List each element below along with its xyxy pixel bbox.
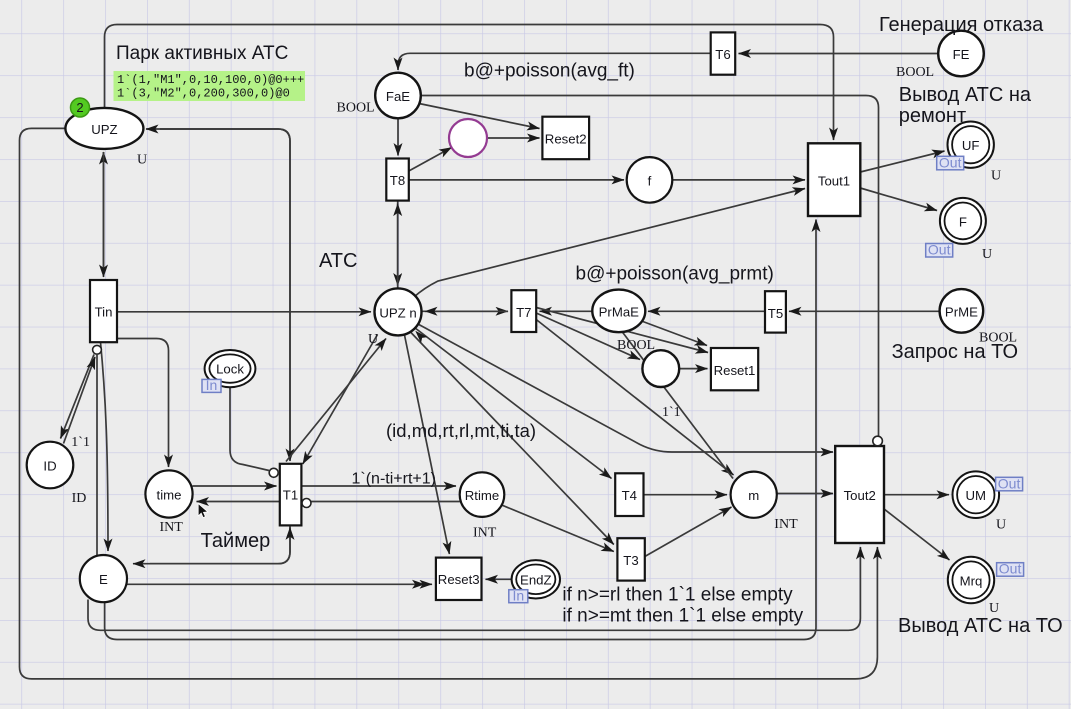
wire T1 to UPZ n (diagonal) xyxy=(286,339,386,462)
transition T7 xyxy=(511,290,536,332)
place purple circle xyxy=(449,119,487,157)
svg-text:U: U xyxy=(137,153,147,168)
svg-text:E: E xyxy=(99,572,108,587)
wire T7 to m xyxy=(536,320,733,476)
port tag Out of UF xyxy=(937,154,964,170)
wire Tin to UPZ n (horizontal) xyxy=(117,311,371,313)
svg-text:T6: T6 xyxy=(715,47,730,62)
circle terminator at T1 right xyxy=(302,499,311,508)
svg-text:T5: T5 xyxy=(768,306,783,321)
svg-text:EndZ: EndZ xyxy=(520,572,552,587)
extra arrowhead on E to Reset3 (double head) xyxy=(412,580,425,589)
svg-text:АТС: АТС xyxy=(319,250,357,272)
transition Reset1 xyxy=(711,348,758,390)
svg-text:Out: Out xyxy=(999,561,1022,577)
svg-text:Tout2: Tout2 xyxy=(844,488,876,503)
wire Tin to time xyxy=(117,339,169,468)
wire T8 to purple circle xyxy=(409,148,452,172)
port tag In of EndZ xyxy=(509,588,528,604)
svg-text:PrMaE: PrMaE xyxy=(599,304,640,319)
wire PrME to T5 xyxy=(789,310,940,312)
port tag In of Lock xyxy=(202,377,221,393)
place ID xyxy=(27,442,74,489)
wire E to T1 (same track, arrow into T1 bottom) xyxy=(150,527,290,563)
port tag Out of F xyxy=(926,242,953,258)
svg-text:T1: T1 xyxy=(283,488,298,503)
svg-text:BOOL: BOOL xyxy=(337,101,375,116)
svg-text:Reset1: Reset1 xyxy=(714,363,756,378)
wire T1 to E xyxy=(133,525,290,563)
transition Reset2 xyxy=(542,117,589,160)
wire UPZ n to T4 xyxy=(415,328,612,479)
place small circle b xyxy=(642,350,679,387)
svg-text:2: 2 xyxy=(76,100,83,115)
wire T7 to Reset1 xyxy=(536,308,708,353)
wire purple circle to Reset2 xyxy=(487,137,540,139)
wire UPZ to Tout2 (left+bottom route) xyxy=(20,128,878,679)
place FE xyxy=(938,31,984,77)
wire UPZ to T1 (same track, arrow into T1 top) xyxy=(160,129,290,461)
wire UPZ to Tin (arrow into Tin top) xyxy=(103,152,105,277)
circle terminator at T1 left xyxy=(269,468,278,477)
svg-text:1`(1,"M1",0,10,100,0)@0+++: 1`(1,"M1",0,10,100,0)@0+++ xyxy=(117,73,304,87)
svg-text:time: time xyxy=(157,488,182,503)
mouse cursor xyxy=(198,504,208,518)
wire FaE to T8 xyxy=(397,118,399,155)
svg-text:INT: INT xyxy=(160,520,184,535)
wire T1 to UPZ (vertical x290, arrow into UPZ right) xyxy=(146,129,290,455)
svg-text:UF: UF xyxy=(962,138,980,153)
svg-text:Lock: Lock xyxy=(216,362,244,377)
place Lock (fusion/port double ellipse) xyxy=(205,350,256,387)
svg-text:In: In xyxy=(512,588,524,604)
wire small circle b to Reset1 xyxy=(679,368,707,370)
place UPZ n xyxy=(375,288,422,335)
svg-text:UPZ n: UPZ n xyxy=(379,305,416,320)
svg-text:U: U xyxy=(368,332,378,347)
place UPZ xyxy=(65,108,143,149)
transition T4 xyxy=(615,473,643,516)
wire Tin to UPZ (vertical, arrow into UPZ bottom) xyxy=(103,152,105,270)
svg-text:Tout1: Tout1 xyxy=(818,174,850,189)
arrowhead into UPZ n from T3 line xyxy=(415,331,427,344)
svg-text:Tin: Tin xyxy=(95,305,113,320)
wire FaE to Reset2 (diagonal) xyxy=(419,104,540,129)
svg-text:Таймер: Таймер xyxy=(201,530,271,552)
svg-text:Вывод АТС на: Вывод АТС на xyxy=(899,84,1032,106)
svg-text:if n>=mt then 1`1 else empty: if n>=mt then 1`1 else empty xyxy=(562,606,803,627)
place UM (output port double circle) xyxy=(953,471,1000,518)
transition Tin xyxy=(90,280,117,342)
svg-text:Генерация отказа: Генерация отказа xyxy=(879,14,1044,36)
wire T3 to m xyxy=(645,507,732,557)
wire T5 to PrMaE xyxy=(648,310,765,312)
wire Tin to ID (diagonal) xyxy=(61,355,95,439)
place PrMaE xyxy=(592,290,645,333)
transition T6 xyxy=(711,32,736,74)
svg-text:Парк активных АТС: Парк активных АТС xyxy=(116,43,288,64)
svg-text:U: U xyxy=(989,601,999,616)
wire Rtime to T3 xyxy=(501,505,614,552)
svg-text:INT: INT xyxy=(774,517,798,532)
svg-text:INT: INT xyxy=(473,526,497,541)
svg-text:Rtime: Rtime xyxy=(465,488,499,503)
svg-text:f: f xyxy=(648,173,652,188)
wire T6 to FaE xyxy=(398,53,711,70)
circle terminator at Tin bottom xyxy=(93,345,102,354)
svg-text:Reset3: Reset3 xyxy=(438,572,480,587)
wire T7 to UPZ n xyxy=(425,310,508,312)
svg-text:b@+poisson(avg_ft): b@+poisson(avg_ft) xyxy=(464,61,635,82)
wire ID to Tin (diagonal) xyxy=(64,357,96,444)
wire T7 to small circle b xyxy=(536,313,640,360)
svg-text:FaE: FaE xyxy=(386,89,410,104)
wire T1 to Rtime (upper horizontal, labelled) xyxy=(301,485,456,487)
wire UPZ top to Tout1 top (long top arc) xyxy=(105,25,834,141)
wire UPZ n to Tout2 (bend + horizontal) xyxy=(417,324,833,453)
transition T1 xyxy=(280,464,302,526)
svg-text:T8: T8 xyxy=(390,173,405,188)
wire f to Tout1 xyxy=(672,179,805,181)
svg-text:BOOL: BOOL xyxy=(896,65,934,80)
wire Tin to E xyxy=(101,342,109,551)
svg-text:T3: T3 xyxy=(623,553,638,568)
wire Tout2 to Mrq xyxy=(883,508,950,560)
svg-text:Запрос на ТО: Запрос на ТО xyxy=(892,341,1018,363)
wire FaE to Tout2 top circle xyxy=(421,96,879,437)
wire E to Tout2 (bottom route) xyxy=(88,547,860,630)
place Rtime xyxy=(460,472,505,517)
wire Lock to T1 (circle end) xyxy=(230,387,269,470)
wire UPZ n to Reset3 xyxy=(405,335,450,554)
transition Reset3 xyxy=(436,558,482,600)
wire UPZ n to T1 (diagonal) xyxy=(303,335,378,465)
wire E to Tout1 (bottom route) xyxy=(105,220,816,640)
svg-text:F: F xyxy=(959,214,967,229)
wire E to Tin (circle end) xyxy=(96,355,98,556)
wire E to Reset3 xyxy=(127,583,432,585)
svg-text:BOOL: BOOL xyxy=(617,338,655,353)
wire T1 to time (lower horizontal) xyxy=(197,501,280,503)
place EndZ (port double ellipse) xyxy=(512,560,560,598)
svg-text:if n>=rl then 1`1 else empty: if n>=rl then 1`1 else empty xyxy=(562,585,793,606)
place FaE xyxy=(375,73,421,119)
token badge 2 on UPZ xyxy=(71,98,90,117)
place PrME xyxy=(940,289,984,333)
svg-text:m: m xyxy=(748,488,759,503)
transition Tout2 xyxy=(835,446,884,543)
svg-text:Mrq: Mrq xyxy=(960,574,983,589)
transition T3 xyxy=(617,538,644,580)
svg-text:T4: T4 xyxy=(622,488,637,503)
wire m to Tout2 xyxy=(777,493,833,495)
place E xyxy=(80,555,127,602)
svg-text:(id,md,rt,rl,mt,ti,ta): (id,md,rt,rl,mt,ti,ta) xyxy=(386,420,536,441)
svg-text:In: In xyxy=(206,377,218,393)
wire UPZ n to Tout1 (long diagonal) xyxy=(414,189,805,298)
wire Tout1 to F xyxy=(860,188,937,211)
wire EndZ to Reset3 xyxy=(486,578,512,580)
svg-text:PrME: PrME xyxy=(945,304,978,319)
initial marking box of UPZ (green) xyxy=(114,71,306,101)
svg-text:U: U xyxy=(982,247,992,262)
place F (output port double circle) xyxy=(940,198,986,244)
transition Tout1 xyxy=(808,143,860,216)
wire T8 to UPZ n xyxy=(397,201,399,286)
wire UPZ n to T3 xyxy=(410,332,614,545)
transition T8 xyxy=(386,159,409,201)
wire T4 to m xyxy=(644,494,728,496)
circle terminator at Tout2 top xyxy=(873,436,883,446)
svg-text:UPZ: UPZ xyxy=(91,122,117,137)
svg-text:U: U xyxy=(996,518,1006,533)
svg-text:U: U xyxy=(991,169,1001,184)
wire Rtime to T1 circle (lower horizontal) xyxy=(311,501,460,503)
port tag Out of UM xyxy=(996,475,1023,491)
svg-text:ID: ID xyxy=(72,491,87,506)
svg-text:1`(n-ti+rt+1): 1`(n-ti+rt+1) xyxy=(352,471,436,488)
place time xyxy=(145,470,192,517)
svg-text:Вывод АТС на ТО: Вывод АТС на ТО xyxy=(898,615,1063,637)
port tag Out of Mrq xyxy=(997,561,1024,577)
place m xyxy=(731,472,777,518)
svg-text:ремонт: ремонт xyxy=(899,105,966,127)
place UF (output port double circle) xyxy=(948,122,994,168)
wire FE to T6 xyxy=(739,53,939,55)
place f xyxy=(627,157,673,203)
wire time to T1 (upper horizontal) xyxy=(192,485,276,487)
svg-text:1`1: 1`1 xyxy=(71,435,90,450)
svg-text:Out: Out xyxy=(939,154,962,170)
svg-text:b@+poisson(avg_prmt): b@+poisson(avg_prmt) xyxy=(576,264,774,285)
place Mrq (output port double circle) xyxy=(948,557,994,603)
wire PrMaE to Reset1 xyxy=(642,321,708,346)
svg-text:1`(3,"M2",0,200,300,0)@0: 1`(3,"M2",0,200,300,0)@0 xyxy=(117,87,290,101)
svg-text:FE: FE xyxy=(953,47,970,62)
svg-text:1`1: 1`1 xyxy=(662,405,681,420)
wire UPZ n to T8 xyxy=(397,204,399,289)
wire PrMaE to T7 xyxy=(540,310,594,312)
wire Tout2 to UM xyxy=(883,494,949,496)
svg-text:Reset2: Reset2 xyxy=(545,132,587,147)
svg-text:T7: T7 xyxy=(516,305,531,320)
wire PrMaE to m (1`1 arc) xyxy=(622,332,733,479)
transition T5 xyxy=(765,291,786,332)
svg-text:ID: ID xyxy=(43,459,56,474)
wire T8 to f xyxy=(409,179,624,181)
wire UPZ n to T7 xyxy=(422,310,509,312)
svg-text:Out: Out xyxy=(998,475,1021,491)
svg-text:UM: UM xyxy=(966,488,987,503)
svg-text:Out: Out xyxy=(928,242,951,258)
wire Tout1 to UF xyxy=(860,151,944,172)
